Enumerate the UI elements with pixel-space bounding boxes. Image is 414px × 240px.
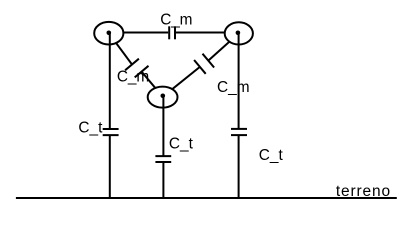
ground line (terreno) (16, 197, 397, 199)
wire node B down to C_t3 (238, 33, 240, 129)
capacitor C_m (top, between A and B) left plate (168, 26, 170, 39)
capacitor C_m (left diagonal, A-C) upper plate (125, 59, 139, 71)
node A center dot (107, 31, 112, 36)
svg-text:C_m: C_m (117, 68, 149, 85)
wire A to C_m top left segment (109, 32, 168, 34)
node A (top-left phase conductor) (94, 22, 123, 45)
node C (middle phase conductor) (148, 87, 178, 108)
wire node A down to C_t1 (109, 33, 111, 129)
wire node C down to C_t2 (162, 96, 164, 156)
capacitor C_m (right diagonal, B-C) upper plate (203, 54, 215, 68)
capacitor C_t3 (right) top plate (231, 128, 247, 130)
wire C_t2 to ground (162, 162, 164, 198)
wire A to left diagonal capacitor (109, 33, 132, 64)
capacitor C_t1 (left) top plate (103, 128, 119, 130)
wire left diagonal capacitor to C (142, 72, 163, 97)
capacitor C_t2 (middle) bottom plate (155, 161, 171, 163)
node C center dot (161, 94, 166, 99)
wire B to right diagonal capacitor (208, 33, 239, 60)
wire C_t3 to ground (238, 135, 240, 198)
svg-text:C_m: C_m (160, 12, 192, 29)
capacitor C_m (right diagonal, B-C) lower plate (194, 60, 206, 74)
svg-text:terreno: terreno (336, 183, 390, 200)
wire right diagonal capacitor to C (163, 67, 200, 97)
wire C_t1 to ground (109, 135, 111, 198)
capacitor C_t1 (left) bottom plate (103, 134, 119, 136)
svg-text:C_t: C_t (78, 120, 103, 137)
capacitor C_t2 (middle) top plate (155, 155, 171, 157)
capacitor C_m (left diagonal, A-C) lower plate (135, 66, 149, 78)
node B (top-right phase conductor) (225, 22, 253, 44)
svg-text:C_m: C_m (217, 79, 250, 96)
svg-text:C_t: C_t (259, 147, 284, 164)
node B center dot (236, 31, 241, 36)
capacitor C_t3 (right) bottom plate (231, 134, 247, 136)
svg-text:C_t: C_t (169, 135, 194, 152)
capacitor C_m (top, between A and B) right plate (174, 26, 176, 39)
wire C_m top to B right segment (176, 32, 239, 34)
